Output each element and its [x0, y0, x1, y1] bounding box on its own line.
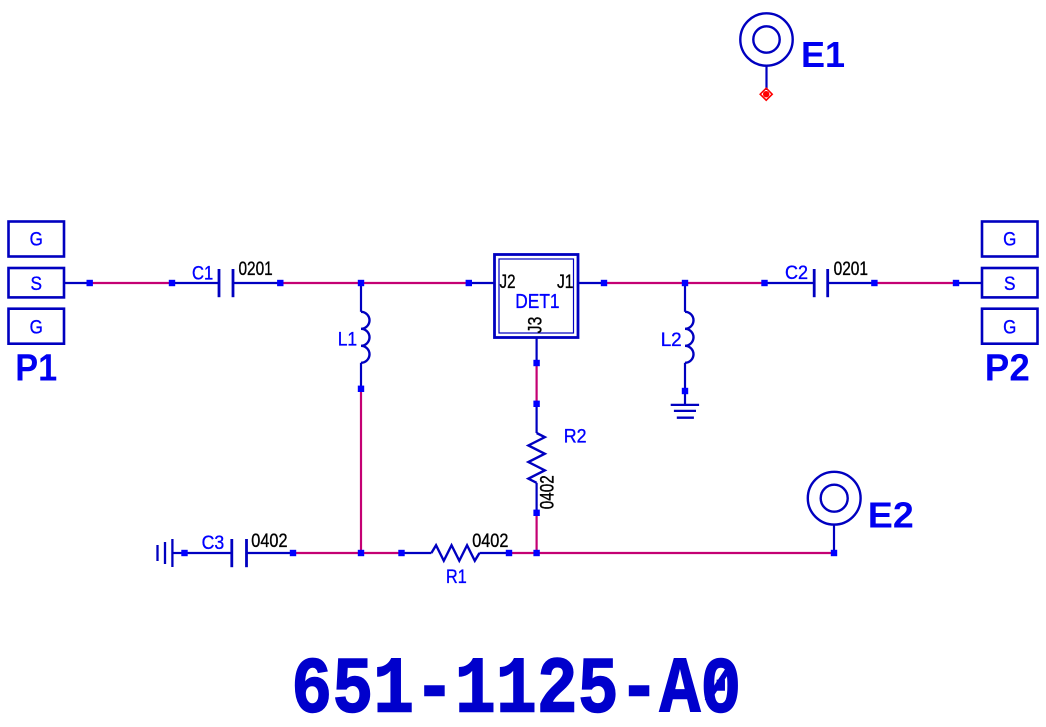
- port P1 pad G bottom: [9, 309, 65, 344]
- wire L1 junction to DET1 node (magenta): [361, 282, 469, 284]
- wire L1 top segment: [360, 283, 362, 312]
- node at (172,283): [169, 280, 175, 286]
- node at (604,283): [601, 280, 607, 286]
- wire J3 pin stub down: [535, 338, 537, 364]
- wire node to C1: [172, 282, 219, 284]
- port P1 pad G top: [9, 222, 65, 257]
- wire node to L2 junction (magenta): [604, 282, 685, 284]
- svg-text:S: S: [30, 273, 42, 295]
- wire R1 to node: [480, 552, 510, 554]
- node at (874.4,283): [871, 280, 877, 286]
- node at (293,553): [290, 550, 296, 556]
- wire L2 top segment: [684, 283, 686, 312]
- wire node to node (magenta): [535, 363, 537, 404]
- wire ground to node: [172, 552, 184, 554]
- svg-text:G: G: [1003, 229, 1016, 251]
- svg-text:0201: 0201: [239, 259, 273, 280]
- node at (956,283): [953, 280, 959, 286]
- svg-text:C3: C3: [202, 533, 225, 554]
- wire node to R2: [535, 404, 537, 433]
- svg-text:L1: L1: [338, 330, 357, 351]
- node at (536.6,512.8): [533, 510, 539, 516]
- node at (536.6,403.8): [533, 401, 539, 407]
- detector DET1 body: [495, 255, 579, 338]
- port P2 pad S: [982, 268, 1038, 297]
- inductor L2: [685, 312, 694, 363]
- port P2 pad G top: [982, 222, 1038, 257]
- ground under L2: [671, 405, 699, 418]
- svg-text:0402: 0402: [472, 531, 508, 552]
- port P1 pad S: [9, 268, 65, 297]
- svg-text:DET1: DET1: [515, 291, 559, 313]
- node at (764.5,283): [761, 280, 767, 286]
- wire node down to bottom rail (magenta): [535, 513, 537, 553]
- wire C3 to node: [247, 552, 294, 554]
- resistor R2: [528, 433, 544, 483]
- terminal E1: [740, 13, 792, 65]
- node at (468.8,283): [466, 280, 472, 286]
- svg-text:0201: 0201: [834, 259, 868, 280]
- ground at C3: [158, 539, 173, 567]
- wire node to node (magenta): [874, 282, 956, 284]
- wire node to R1: [402, 552, 432, 554]
- wire E2 stub: [833, 525, 835, 553]
- node at (361,283) L1 top junction: [358, 280, 364, 286]
- svg-text:J1: J1: [557, 271, 574, 293]
- title 651-1125-A0: [291, 646, 741, 727]
- svg-text:L2: L2: [661, 330, 682, 351]
- svg-text:J3: J3: [525, 317, 547, 334]
- wire C1 to node: [233, 282, 280, 284]
- node at (685,283) L2 top junction: [682, 280, 688, 286]
- svg-text:S: S: [1004, 273, 1016, 295]
- svg-text:R1: R1: [446, 567, 467, 588]
- svg-text:651-1125-A0: 651-1125-A0: [291, 646, 741, 723]
- node at (834,553): [831, 550, 837, 556]
- svg-text:0402: 0402: [538, 475, 559, 509]
- net flag (red diamond node) on E1: [760, 88, 772, 100]
- node at (89.7,283): [87, 280, 93, 286]
- wire C2 to node: [828, 282, 875, 284]
- resistor R1: [431, 545, 479, 561]
- svg-text:C1: C1: [192, 264, 213, 285]
- capacitor C1: [219, 269, 233, 297]
- wire junction to node (magenta): [361, 552, 402, 554]
- wire L2 node to ground: [684, 391, 686, 405]
- svg-text:G: G: [30, 229, 43, 251]
- port P2 pad G bottom: [982, 309, 1038, 344]
- node at (361,553): [358, 550, 364, 556]
- svg-text:0402: 0402: [251, 531, 287, 552]
- terminal E2: [808, 472, 861, 525]
- wire pin J2 stub: [469, 282, 495, 284]
- wire P1.S to node: [64, 282, 89, 284]
- node at (401.5,553): [398, 550, 404, 556]
- capacitor C3: [232, 539, 247, 567]
- wire node to node (magenta): [90, 282, 172, 284]
- node at (685,391): [682, 388, 688, 394]
- wire pin J1 stub: [578, 282, 604, 284]
- wire E1 stub: [765, 66, 767, 90]
- svg-text:G: G: [1003, 316, 1016, 338]
- inductor L1: [361, 312, 370, 363]
- svg-text:E1: E1: [801, 34, 845, 75]
- svg-text:G: G: [30, 316, 43, 338]
- wire node to P2.S: [956, 282, 982, 284]
- wire node to C2: [765, 282, 815, 284]
- node at (280.3,283): [277, 280, 283, 286]
- wire junction to E2 (magenta): [537, 552, 834, 554]
- wire L1 bottom segment: [360, 363, 362, 389]
- node at (361,388.8): [358, 386, 364, 392]
- wire node to L1 junction (magenta): [280, 282, 361, 284]
- wire node to L1 rail junction (magenta): [293, 552, 361, 554]
- node at (509,553): [506, 550, 512, 556]
- wire node to R2 rail junction (magenta): [509, 552, 537, 554]
- node at (536.6,363): [533, 360, 539, 366]
- svg-text:E2: E2: [868, 495, 914, 536]
- node at (536.6,553): [533, 550, 539, 556]
- svg-text:R2: R2: [564, 427, 587, 448]
- capacitor C2: [814, 269, 828, 297]
- wire R2 to node: [535, 483, 537, 513]
- wire L2 junction to node (magenta): [685, 282, 765, 284]
- svg-text:J2: J2: [500, 271, 516, 293]
- wire L2 bottom segment: [684, 363, 686, 391]
- svg-text:C2: C2: [785, 263, 808, 284]
- svg-text:P2: P2: [985, 347, 1030, 389]
- wire L1 node down to bottom rail (magenta): [360, 389, 362, 553]
- wire node to C3: [185, 552, 232, 554]
- svg-text:P1: P1: [15, 348, 57, 390]
- node at (184.5,553): [181, 550, 187, 556]
